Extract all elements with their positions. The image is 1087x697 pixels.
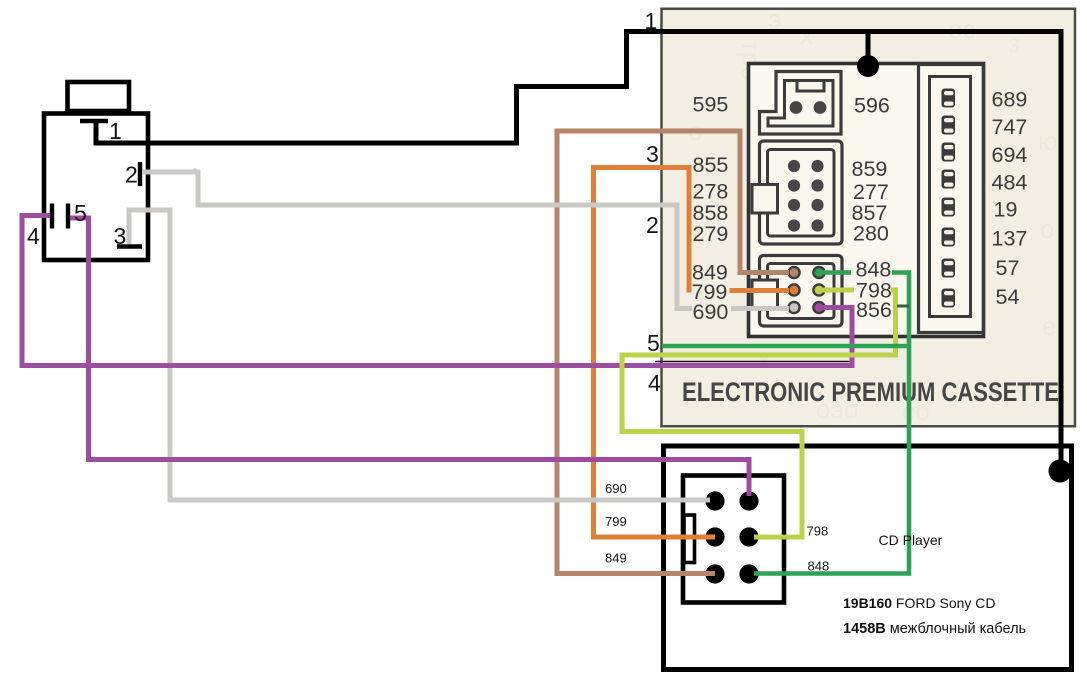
wire pin2 grey to cassette 690 bbox=[143, 172, 692, 309]
artifact green stub bbox=[897, 305, 909, 308]
svg-text:х: х bbox=[758, 344, 771, 374]
wire pin5 purple to CD top right pin bbox=[70, 218, 749, 496]
svg-text:3: 3 bbox=[114, 223, 127, 249]
svg-text:2: 2 bbox=[646, 212, 659, 238]
bottom connector pin 690 bbox=[788, 302, 799, 313]
pin 1 T bar bbox=[80, 119, 108, 123]
bottom connector outer housing bbox=[760, 256, 843, 327]
svg-text:690: 690 bbox=[693, 300, 729, 324]
scan value labels left column bbox=[692, 93, 729, 325]
connector 596 key notch bbox=[797, 81, 824, 92]
artifact gray speck near pin2 bend bbox=[194, 169, 197, 172]
bottom connector side tab bbox=[752, 280, 778, 308]
scanned cassette diagram background bbox=[662, 9, 1076, 427]
svg-text:1458B межблочный кабель: 1458B межблочный кабель bbox=[843, 621, 1026, 637]
8-pin strip inner bbox=[930, 77, 971, 317]
svg-text:1: 1 bbox=[109, 118, 122, 144]
scan value labels right column bbox=[852, 94, 892, 323]
wire number labels bbox=[645, 8, 662, 396]
bottom connector pin 799 bbox=[788, 284, 799, 295]
svg-text:о: о bbox=[1040, 214, 1054, 244]
middle connector side tab bbox=[752, 185, 778, 214]
CD player box bbox=[664, 446, 1072, 670]
cassette inner white panel bbox=[749, 64, 984, 337]
middle connector pins bbox=[788, 160, 824, 232]
ghost bleed-through text bbox=[688, 4, 1058, 426]
svg-text:ELECTRONIC PREMIUM CASSETTE: ELECTRONIC PREMIUM CASSETTE bbox=[682, 377, 1059, 407]
strip pin labels bbox=[992, 88, 1028, 310]
svg-text:747: 747 bbox=[992, 115, 1028, 139]
wire pin4 purple to cassette 856 bbox=[22, 216, 852, 366]
svg-text:278: 278 bbox=[693, 180, 729, 204]
wire 799 orange cassette to CD bbox=[730, 288, 790, 293]
bottom connector pin 849 bbox=[788, 267, 799, 278]
svg-text:689: 689 bbox=[992, 88, 1028, 112]
svg-text:855: 855 bbox=[693, 153, 729, 177]
pin number labels inside connector bbox=[27, 118, 138, 249]
svg-text:4: 4 bbox=[27, 223, 40, 249]
svg-text:57: 57 bbox=[996, 256, 1020, 280]
svg-text:CD Player: CD Player bbox=[879, 532, 943, 548]
svg-text:5: 5 bbox=[74, 200, 87, 226]
svg-text:54: 54 bbox=[996, 285, 1020, 309]
bottom connector pin 856 bbox=[813, 302, 824, 313]
svg-text:849: 849 bbox=[605, 551, 627, 566]
pin 5 tick bbox=[66, 204, 70, 229]
CD connector box bbox=[683, 476, 784, 603]
svg-text:19: 19 bbox=[994, 198, 1018, 222]
svg-text:19B160 FORD Sony CD: 19B160 FORD Sony CD bbox=[843, 595, 996, 611]
wire 849 brown cassette to CD bbox=[557, 131, 789, 574]
svg-text:799: 799 bbox=[605, 514, 627, 529]
svg-text:798: 798 bbox=[807, 524, 829, 539]
CD connector tab bbox=[684, 515, 695, 563]
middle connector inner socket bbox=[768, 150, 835, 237]
svg-text:694: 694 bbox=[992, 143, 1028, 167]
svg-text:4: 4 bbox=[648, 370, 661, 396]
svg-text:5: 5 bbox=[647, 330, 660, 356]
svg-text:х: х bbox=[800, 20, 813, 50]
wire 798 lime cassette to CD bbox=[822, 288, 854, 293]
CD wire labels bbox=[605, 481, 829, 574]
svg-text:690: 690 bbox=[605, 481, 627, 496]
pin 3 tick bbox=[117, 244, 142, 248]
black stub to junction dot bbox=[866, 32, 871, 61]
middle connector outer housing bbox=[760, 141, 843, 244]
svg-text:137: 137 bbox=[992, 227, 1028, 251]
wire pin1 black to cassette 596 and CD chassis bbox=[96, 32, 1061, 471]
svg-text:280: 280 bbox=[853, 222, 889, 246]
left connector body bbox=[44, 114, 148, 261]
wire 848 green cassette to CD with tap 5 bbox=[822, 270, 851, 275]
wire pin3 grey to CD 690 bbox=[129, 210, 710, 500]
junction dot at CD chassis bbox=[1049, 460, 1072, 483]
wire 5 green tap bbox=[662, 344, 909, 349]
left connector top tab bbox=[68, 82, 130, 111]
svg-text:2: 2 bbox=[125, 162, 138, 188]
8-pin strip outer housing bbox=[919, 65, 984, 333]
connector 596 pin left bbox=[790, 101, 803, 114]
CD connector pins bbox=[705, 491, 758, 583]
svg-text:279: 279 bbox=[693, 222, 729, 246]
junction dot at 596 bbox=[857, 55, 879, 77]
svg-text:3: 3 bbox=[646, 141, 659, 167]
svg-text:1: 1 bbox=[645, 8, 658, 34]
bottom connector pin 798 bbox=[813, 284, 824, 295]
svg-text:484: 484 bbox=[992, 171, 1028, 195]
bottom connector pin 848 bbox=[813, 267, 824, 278]
svg-text:ю: ю bbox=[1038, 126, 1058, 156]
svg-text:848: 848 bbox=[808, 559, 830, 574]
svg-text:596: 596 bbox=[854, 94, 890, 118]
connector 596 outer housing bbox=[760, 72, 842, 135]
svg-text:856: 856 bbox=[856, 298, 892, 322]
svg-text:859: 859 bbox=[852, 157, 888, 181]
svg-text:е: е bbox=[1042, 311, 1056, 341]
connector 596 pin right bbox=[814, 101, 827, 114]
svg-text:595: 595 bbox=[693, 93, 729, 117]
pin 2 tick bbox=[138, 162, 142, 186]
bottom connector inner socket bbox=[768, 264, 835, 319]
artifact thin black line above purple wire bbox=[655, 361, 851, 363]
strip pins bbox=[942, 89, 956, 308]
connector 596 inner socket bbox=[768, 81, 833, 127]
pin 4 tick bbox=[50, 204, 54, 229]
